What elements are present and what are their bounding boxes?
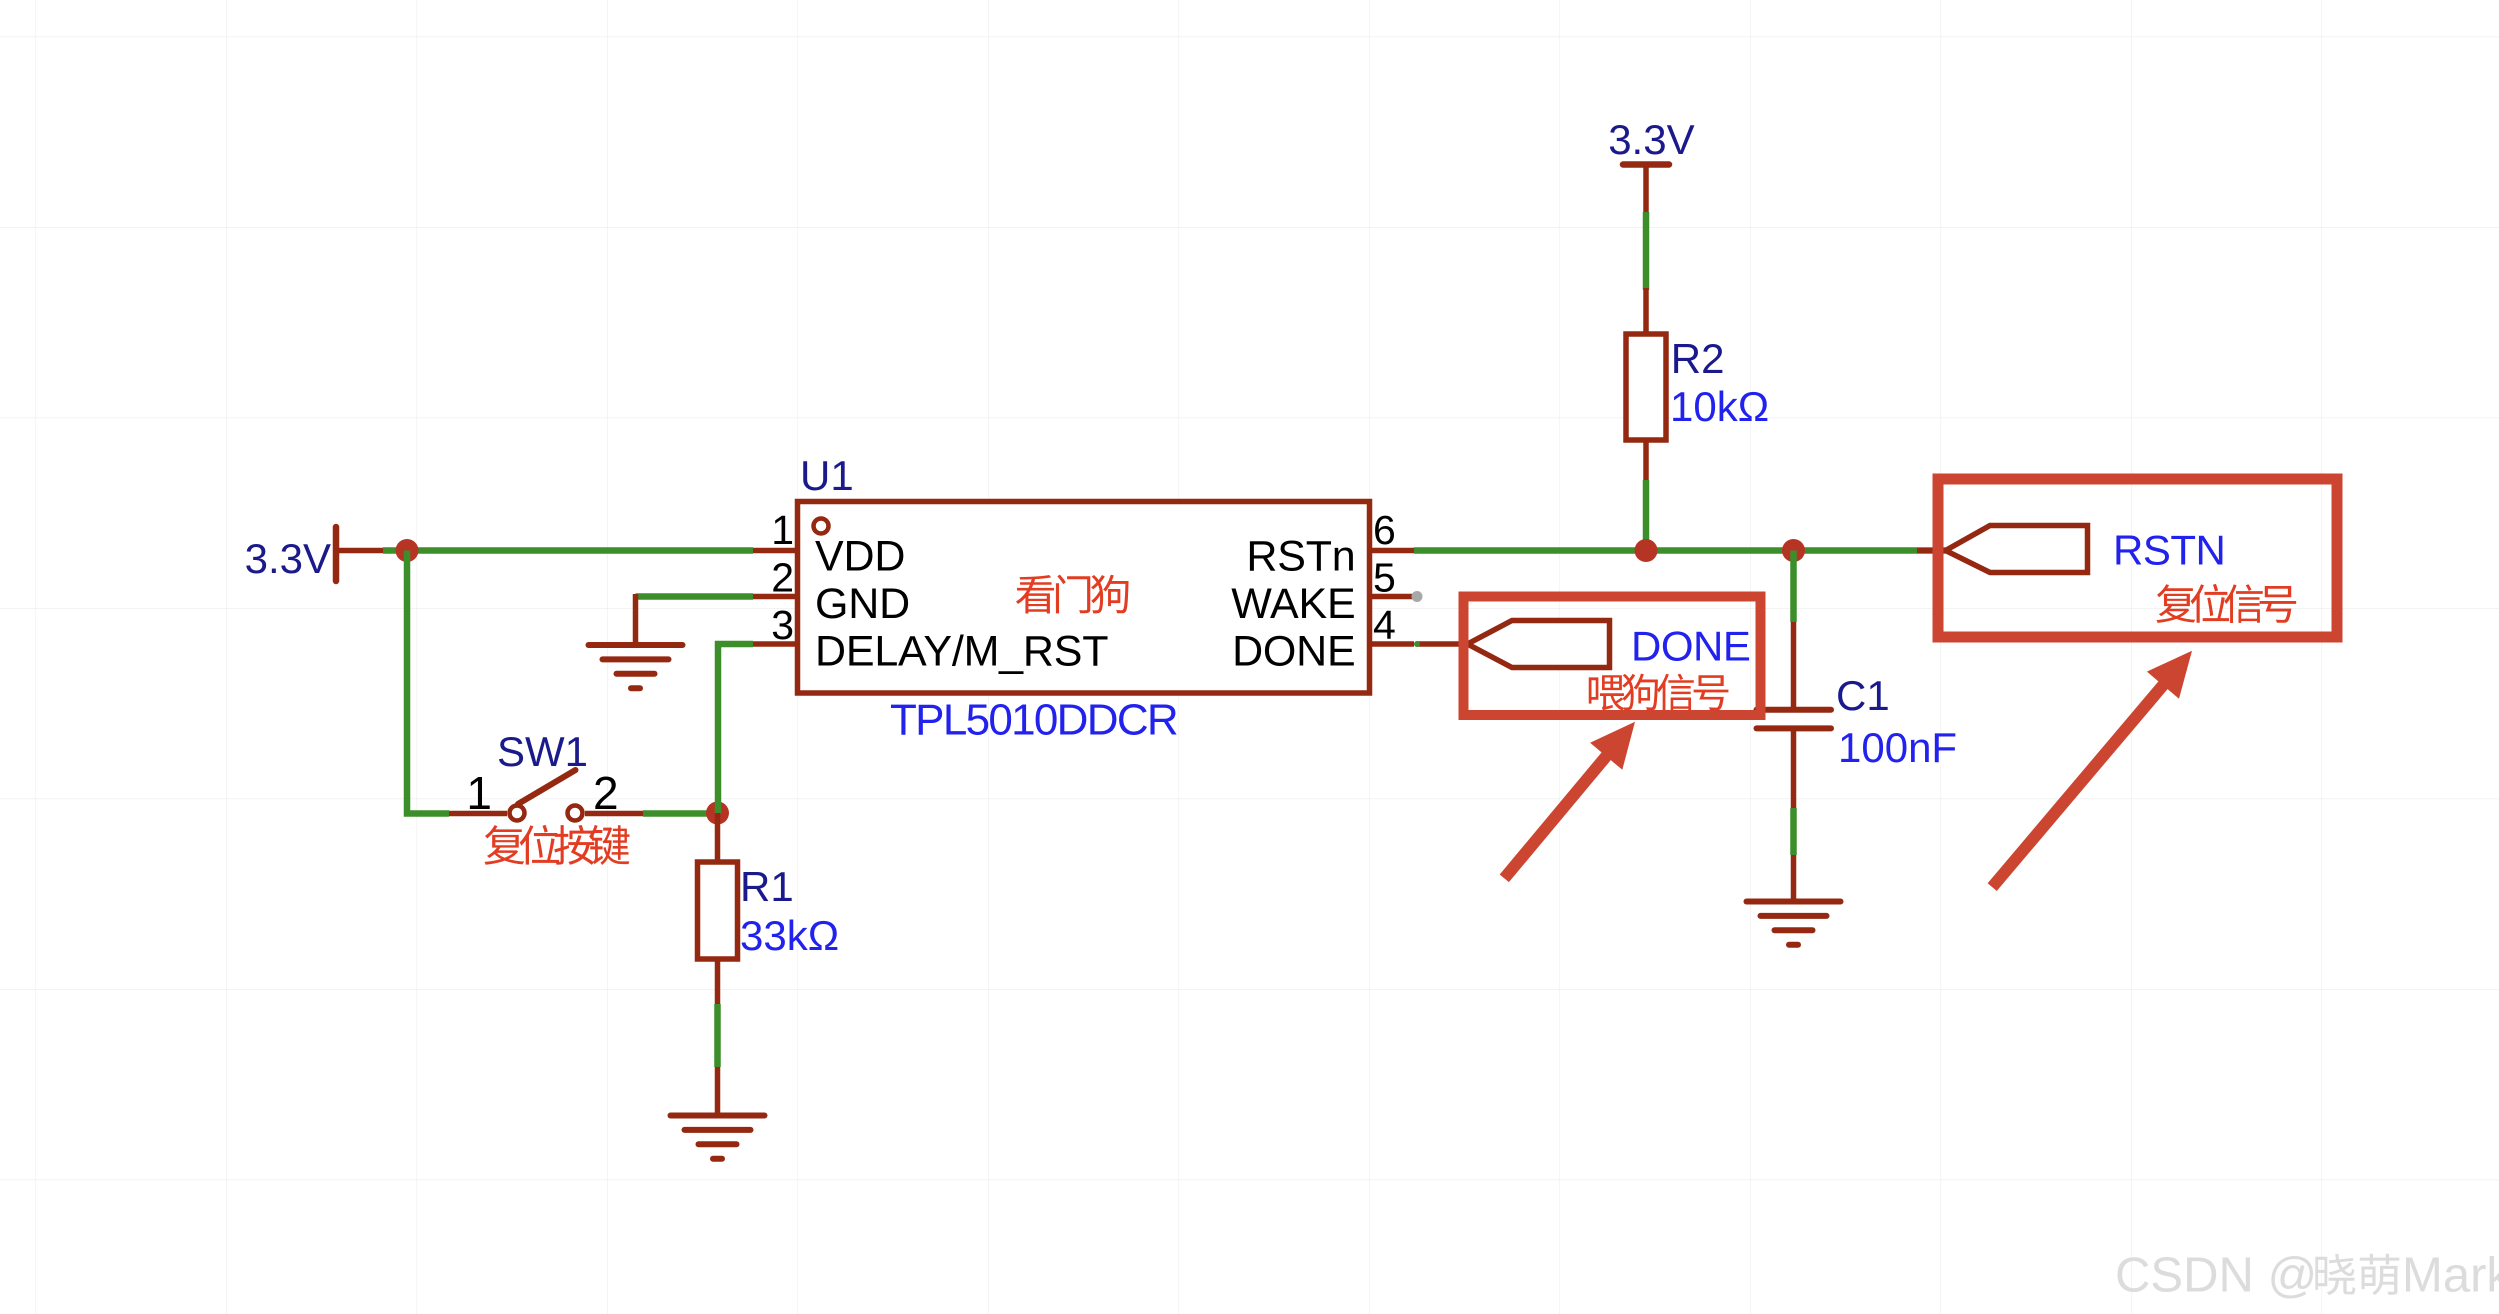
junction node R2 / RSTn	[1635, 539, 1658, 562]
svg-text:Mark: Mark	[2402, 1249, 2499, 1303]
svg-text:1: 1	[466, 767, 492, 819]
svg-text:6: 6	[1373, 507, 1396, 553]
wire junction up to U1 pin 3 DELAY/M_RST	[718, 644, 753, 814]
power flag 3.3V (top, above R2)	[1608, 116, 1694, 212]
svg-text:33kΩ: 33kΩ	[740, 912, 839, 959]
svg-text:WAKE: WAKE	[1231, 580, 1355, 628]
svg-text:GND: GND	[815, 580, 910, 628]
svg-text:TPL5010DDCR: TPL5010DDCR	[890, 696, 1177, 745]
no-connect marker on WAKE pin 5	[1412, 591, 1423, 602]
svg-text:SW1: SW1	[497, 728, 588, 775]
svg-text:RSTn: RSTn	[1246, 533, 1355, 581]
svg-text:DELAY/M_RST: DELAY/M_RST	[815, 628, 1108, 676]
svg-text:R1: R1	[740, 863, 794, 910]
svg-text:2: 2	[771, 555, 794, 601]
wire 3.3V to R2	[1643, 212, 1650, 290]
junction node SW1 / R1 / DELAY	[706, 802, 729, 825]
capacitor C1 100nF	[1757, 622, 1958, 808]
op-amp/IC U1 TPL5010DDCR watchdog timer	[753, 452, 1414, 745]
switch SW1 (reset push button), pins 1 and 2	[449, 728, 643, 821]
annotation text 复位信号	[2156, 584, 2296, 623]
annotation text 复位按键 (reset button)	[484, 825, 629, 865]
wire RSTn net: U1 pin 6 to port RSTN	[1414, 547, 1946, 554]
resistor R1 33kΩ	[698, 813, 840, 1004]
annotation arrow to DONE box	[1504, 722, 1635, 879]
svg-text:1: 1	[771, 507, 794, 553]
wire VDD branch down to SW1 pin 1	[407, 551, 449, 814]
svg-text:10kΩ: 10kΩ	[1670, 383, 1769, 430]
svg-text:U1: U1	[800, 452, 854, 499]
junction node C1 / RSTn	[1782, 539, 1805, 562]
svg-text:100nF: 100nF	[1838, 724, 1957, 771]
svg-text:R2: R2	[1671, 335, 1725, 382]
resistor R2 10kΩ	[1626, 288, 1769, 480]
ground (below C1)	[1747, 855, 1841, 945]
svg-text:5: 5	[1373, 555, 1396, 601]
svg-text:3.3V: 3.3V	[245, 535, 331, 582]
ground (below R1)	[671, 1067, 765, 1159]
svg-text:RSTN: RSTN	[2113, 527, 2225, 574]
annotation text 看门狗 (watchdog) inside U1	[1016, 575, 1129, 614]
wire VDD net: power flag to U1 pin 1	[383, 547, 753, 554]
svg-text:CSDN @: CSDN @	[2115, 1249, 2317, 1303]
wire SW1 pin 2 to junction	[643, 810, 718, 817]
svg-text:4: 4	[1373, 602, 1396, 648]
port DONE (net flag)	[1468, 621, 1751, 670]
wire C1 to ground	[1790, 808, 1797, 855]
svg-text:C1: C1	[1836, 672, 1890, 719]
power flag 3.3V (VDD supply, left)	[245, 527, 383, 582]
junction node VDD / SW1 branch	[396, 539, 419, 562]
svg-text:3.3V: 3.3V	[1608, 116, 1694, 163]
svg-text:3: 3	[771, 602, 794, 648]
svg-text:DONE: DONE	[1232, 628, 1355, 676]
annotation box RSTN / 复位信号 (reset signal)	[1938, 479, 2337, 637]
wire U1 pin 2 GND to ground symbol	[636, 593, 754, 600]
wire R2 down to RSTn net	[1643, 480, 1650, 551]
annotation box DONE / 喂狗信号 (feed-dog signal)	[1464, 597, 1761, 716]
svg-text:VDD: VDD	[815, 533, 905, 581]
watermark CSDN @晓萌Mark	[2115, 1249, 2499, 1303]
annotation arrow to RSTN box	[1992, 651, 2192, 887]
annotation text 喂狗信号	[1589, 674, 1729, 711]
svg-text:2: 2	[593, 767, 619, 819]
wire U1 pin 4 DONE to port	[1417, 641, 1468, 647]
svg-text:DONE: DONE	[1631, 623, 1750, 670]
ground (U1 pin 2 GND)	[589, 594, 683, 688]
wire RSTn net down to C1	[1790, 551, 1797, 623]
port RSTN (net flag)	[1917, 526, 2225, 574]
wire R1 to ground	[714, 1004, 721, 1067]
